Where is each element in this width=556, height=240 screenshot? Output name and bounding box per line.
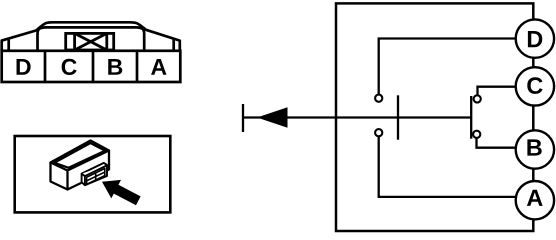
terminal A (516, 181, 554, 219)
connector J1 housing inner outline (38, 27, 145, 50)
relay connector block (82, 163, 107, 185)
pin label C (62, 59, 77, 75)
relay pointer arrow (102, 180, 141, 205)
terminal B (516, 130, 554, 168)
terminal bar (242, 104, 244, 132)
wire: actuating rod (243, 116, 471, 118)
switch internal circuit box (336, 3, 533, 231)
actuation arrowhead (257, 107, 288, 127)
upper left contact (375, 95, 382, 102)
relay location box (15, 136, 171, 212)
connector J1 right lock tab (172, 39, 175, 51)
upper right contact (474, 95, 481, 102)
connector J1 keyway crossed box (66, 33, 114, 50)
connector J1 left lock tab (7, 39, 10, 51)
bridge bar (470, 96, 472, 139)
lower right contact (473, 131, 480, 138)
pin label D (17, 59, 31, 75)
switch blade (397, 95, 399, 139)
terminal D (516, 19, 554, 57)
wire: lower right contact to terminal B (477, 138, 517, 147)
wire: lower left contact to terminal A (379, 137, 516, 197)
wire: terminal D to upper left contact (379, 39, 516, 95)
lower left contact (375, 129, 382, 136)
connector J1 pin row (2, 51, 181, 82)
relay isometric body (51, 141, 110, 190)
pin label B (108, 59, 122, 75)
terminal C (516, 67, 554, 105)
connector J1 housing outer outline (2, 22, 180, 51)
wire: terminal C to upper right contact (478, 87, 517, 95)
pin label A (151, 59, 166, 75)
